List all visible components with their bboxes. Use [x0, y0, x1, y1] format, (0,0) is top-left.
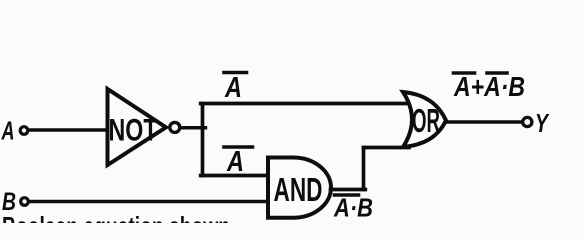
wire AND output	[331, 188, 366, 192]
output node Y	[523, 117, 532, 126]
wire AND to OR horizontal	[364, 146, 410, 150]
svg-text:NOT: NOT	[109, 112, 158, 148]
wire lower rail A-bar to AND	[201, 174, 269, 178]
branch vertical wire	[201, 104, 205, 176]
label A-bar + A-bar·B	[453, 71, 525, 102]
NOT output bubble	[170, 122, 180, 132]
NOT gate U1	[108, 89, 167, 165]
wire top rail A-bar to OR	[201, 102, 412, 106]
OR gate	[403, 92, 446, 147]
input node B	[21, 198, 29, 206]
svg-text:Y: Y	[535, 108, 550, 138]
wire AND to OR vertical	[362, 148, 366, 190]
svg-text:A: A	[226, 146, 244, 178]
svg-text:A+A·B: A+A·B	[453, 71, 525, 102]
label A-bar (top rail)	[224, 72, 247, 104]
input node A	[20, 127, 28, 135]
svg-text:A: A	[224, 72, 242, 104]
wire bubble to branch node	[182, 126, 206, 130]
wire B to AND	[30, 200, 270, 204]
wire OR to output	[447, 120, 522, 124]
svg-text:A·B: A·B	[333, 193, 373, 223]
wire A to NOT	[29, 128, 106, 132]
svg-text:A: A	[1, 116, 15, 146]
label A-bar·B	[333, 193, 373, 223]
svg-text:OR: OR	[412, 102, 440, 139]
label A-bar (lower rail)	[224, 146, 253, 178]
svg-text:Boolean equation shown: Boolean equation shown	[2, 212, 230, 224]
svg-text:AND: AND	[274, 171, 323, 208]
AND gate	[268, 158, 331, 218]
